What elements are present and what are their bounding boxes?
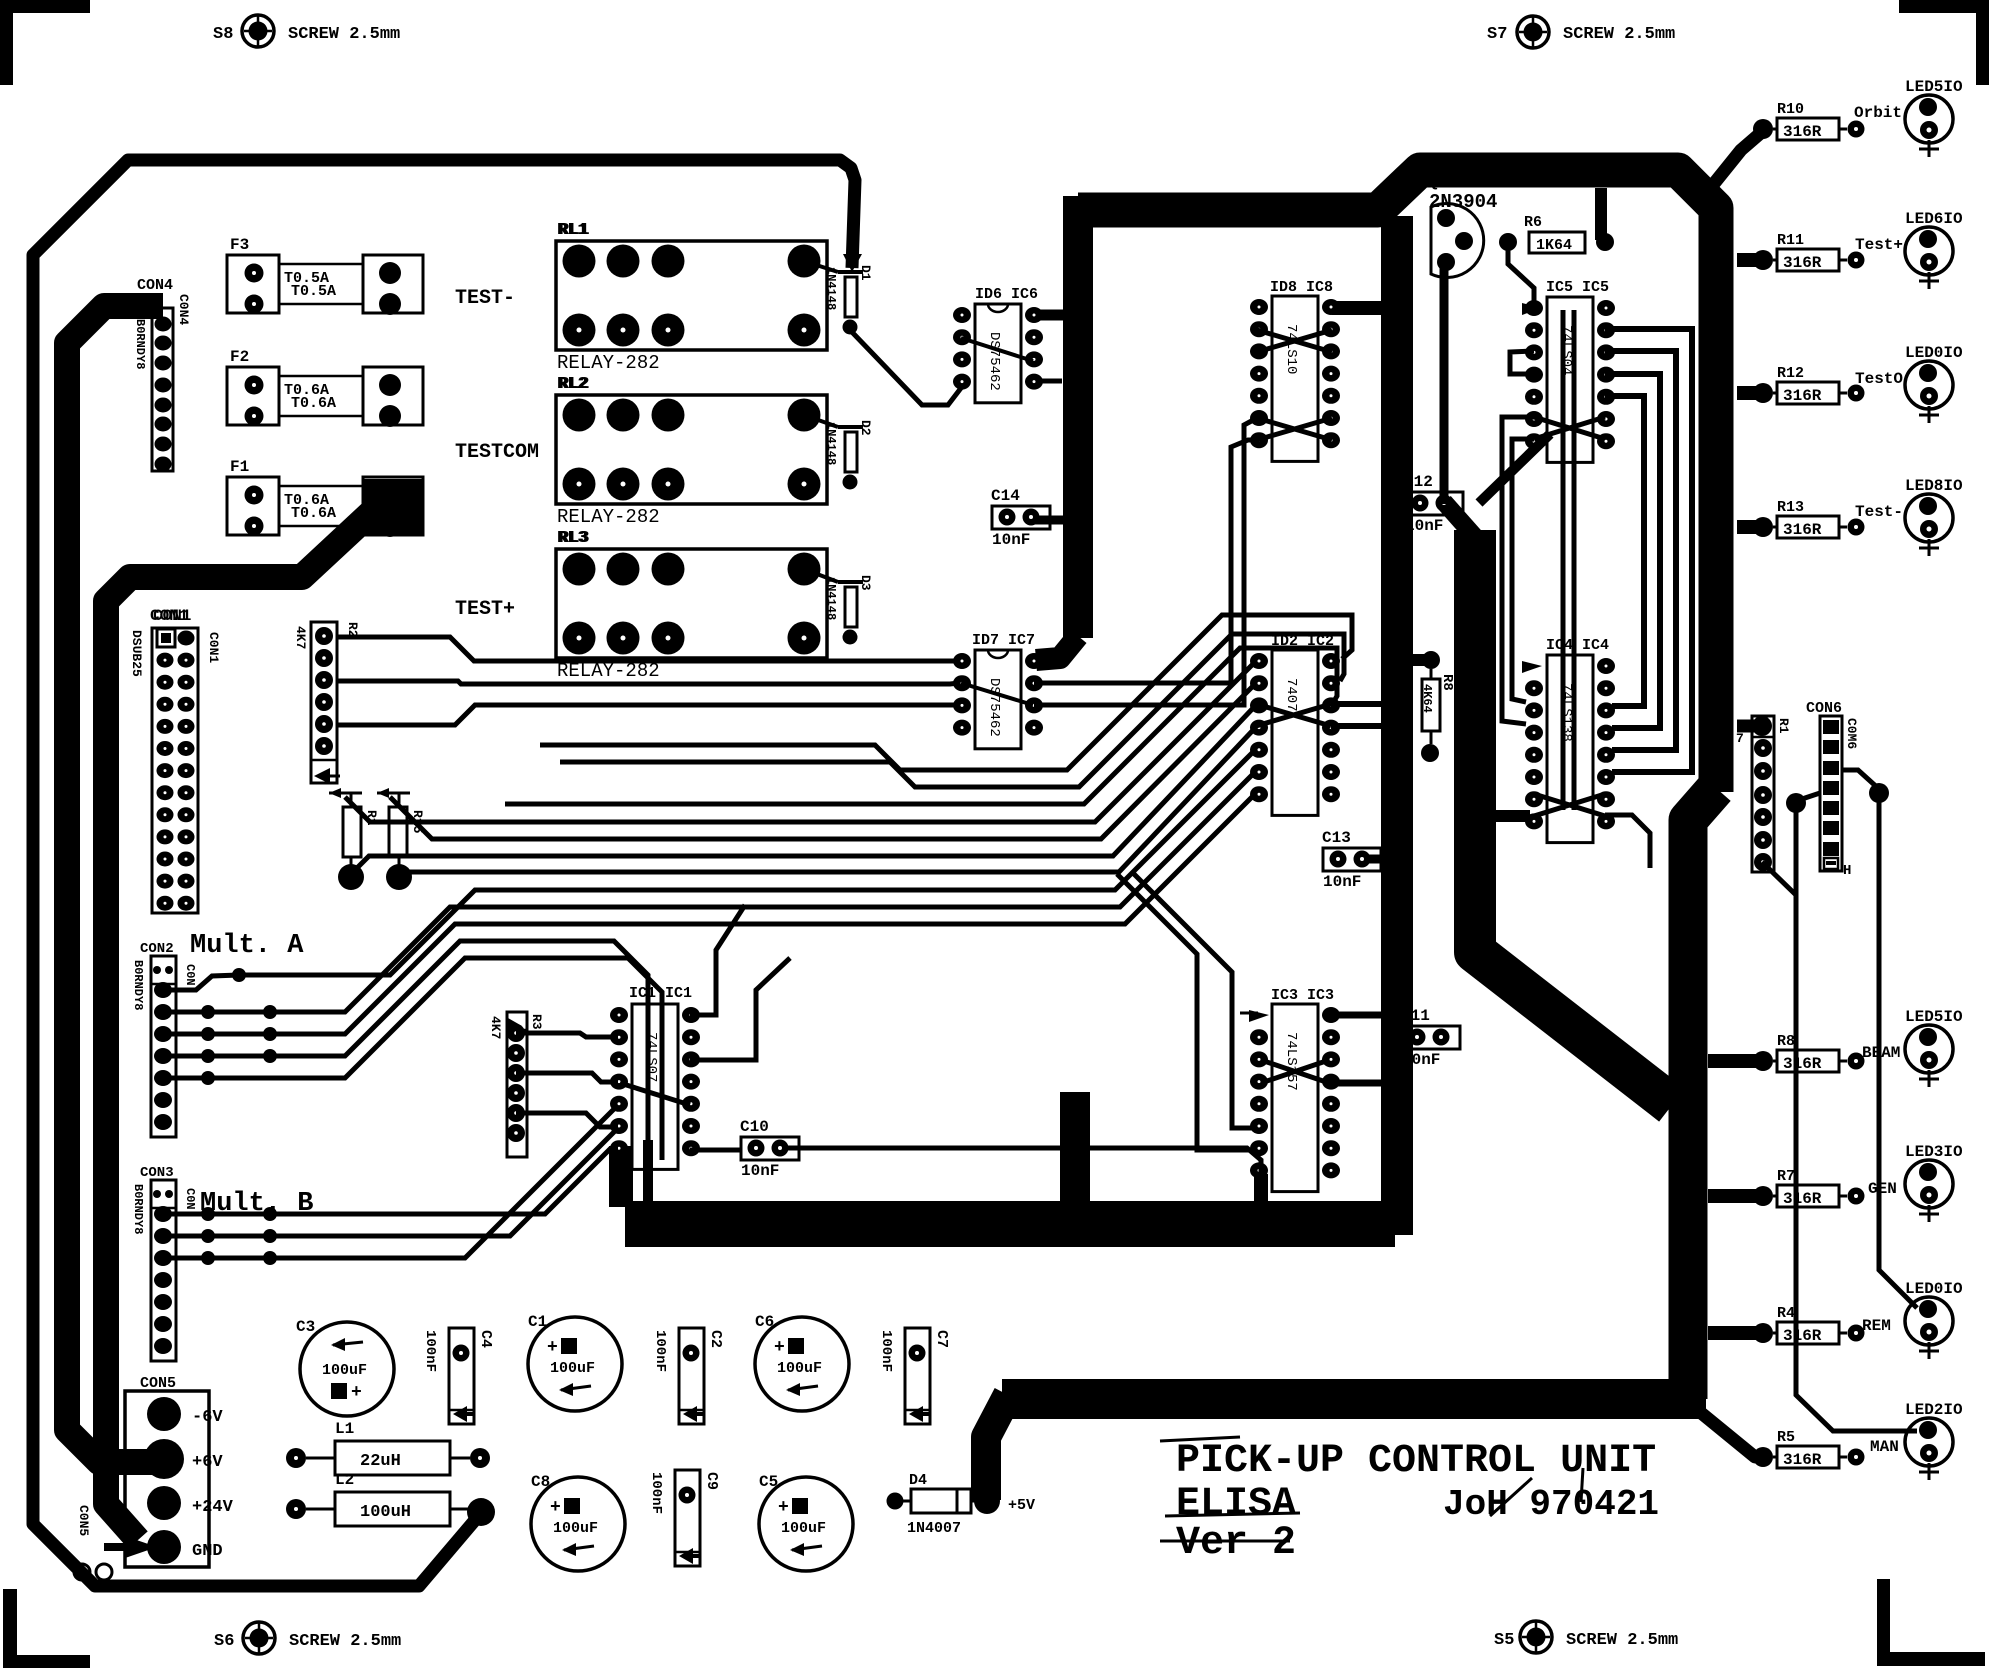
svg-text:C3: C3 (296, 1318, 315, 1336)
svg-text:TEST+: TEST+ (455, 598, 515, 621)
svg-text:PICK-UP CONTROL UNIT: PICK-UP CONTROL UNIT (1176, 1439, 1656, 1484)
svg-text:LED6IO: LED6IO (1905, 210, 1963, 228)
svg-text:ID8 IC8: ID8 IC8 (1270, 279, 1333, 296)
svg-text:100nF: 100nF (878, 1330, 894, 1372)
svg-text:RELAY-282: RELAY-282 (557, 352, 660, 374)
svg-text:R6: R6 (1524, 214, 1542, 231)
svg-text:R12: R12 (1777, 365, 1804, 382)
svg-text:H: H (1843, 863, 1851, 879)
svg-text:C0N: C0N (183, 1188, 197, 1210)
svg-text:R13: R13 (1777, 499, 1804, 516)
svg-text:C10: C10 (740, 1118, 769, 1136)
svg-text:100uF: 100uF (322, 1362, 367, 1379)
svg-text:SCREW 2.5mm: SCREW 2.5mm (1566, 1631, 1678, 1650)
svg-text:100nF: 100nF (422, 1330, 438, 1372)
svg-text:316R: 316R (1783, 254, 1822, 272)
svg-text:Q1: Q1 (1428, 173, 1447, 191)
svg-text:C6: C6 (755, 1313, 774, 1331)
svg-text:F1: F1 (230, 458, 249, 476)
svg-text:C11: C11 (1401, 1007, 1430, 1025)
svg-text:T0.6A: T0.6A (291, 505, 336, 522)
svg-text:REM: REM (1862, 1317, 1891, 1335)
svg-text:+: + (778, 1498, 789, 1518)
svg-text:IC4 IC4: IC4 IC4 (1546, 637, 1609, 654)
svg-text:LED5IO: LED5IO (1905, 78, 1963, 96)
svg-text:R8: R8 (1777, 1033, 1795, 1050)
svg-text:CON6: CON6 (1806, 700, 1842, 717)
svg-text:LED2IO: LED2IO (1905, 1401, 1963, 1419)
svg-text:Test+: Test+ (1855, 236, 1903, 254)
svg-text:2N3904: 2N3904 (1429, 191, 1497, 213)
svg-text:TestO: TestO (1855, 370, 1903, 388)
svg-text:4K64: 4K64 (1420, 684, 1434, 713)
svg-text:1K64: 1K64 (1536, 237, 1572, 254)
svg-text:B0RNDY8: B0RNDY8 (131, 1184, 145, 1234)
svg-text:R3: R3 (529, 1014, 544, 1030)
svg-text:74LS07: 74LS07 (643, 1032, 659, 1082)
svg-text:SCREW 2.5mm: SCREW 2.5mm (288, 25, 400, 44)
svg-text:D4: D4 (909, 1472, 927, 1489)
svg-text:LED3IO: LED3IO (1905, 1143, 1963, 1161)
svg-text:IC3 IC3: IC3 IC3 (1271, 987, 1334, 1004)
svg-text:C8: C8 (531, 1473, 550, 1491)
svg-text:T0.6A: T0.6A (291, 395, 336, 412)
svg-text:R5: R5 (1777, 1429, 1795, 1446)
svg-text:JoH 970421: JoH 970421 (1443, 1484, 1659, 1525)
svg-text:4K7: 4K7 (293, 626, 308, 649)
svg-text:TEST-: TEST- (455, 287, 515, 310)
svg-text:LED0IO: LED0IO (1905, 1280, 1963, 1298)
svg-text:316R: 316R (1783, 123, 1822, 141)
svg-text:F2: F2 (230, 348, 249, 366)
svg-text:SCREW 2.5mm: SCREW 2.5mm (289, 1632, 401, 1651)
svg-text:D3: D3 (858, 575, 873, 591)
svg-text:C2: C2 (707, 1330, 724, 1348)
svg-text:C0N4: C0N4 (176, 294, 191, 325)
svg-text:74LS10: 74LS10 (1283, 324, 1299, 374)
svg-text:316R: 316R (1783, 1055, 1822, 1073)
svg-text:Orbit: Orbit (1854, 104, 1902, 122)
svg-text:7407: 7407 (1283, 678, 1299, 712)
svg-text:DS75462: DS75462 (986, 678, 1002, 737)
svg-text:C14: C14 (991, 487, 1020, 505)
svg-text:R7: R7 (1777, 1168, 1795, 1185)
svg-text:ID6 IC6: ID6 IC6 (975, 286, 1038, 303)
svg-text:T0.5A: T0.5A (291, 283, 336, 300)
svg-text:10nF: 10nF (1402, 1051, 1440, 1069)
svg-text:100uF: 100uF (550, 1360, 595, 1377)
svg-text:C5: C5 (759, 1473, 778, 1491)
svg-text:TESTCOM: TESTCOM (455, 441, 539, 464)
svg-text:L2: L2 (335, 1471, 354, 1489)
svg-text:R1: R1 (1776, 718, 1791, 734)
svg-text:C9: C9 (703, 1472, 720, 1490)
svg-text:+: + (550, 1498, 561, 1518)
svg-text:100nF: 100nF (652, 1330, 668, 1372)
svg-text:C7: C7 (933, 1330, 950, 1348)
svg-text:CON5: CON5 (140, 1375, 176, 1392)
svg-text:D2: D2 (858, 420, 873, 436)
svg-text:-6V: -6V (192, 1408, 223, 1427)
svg-text:SCREW 2.5mm: SCREW 2.5mm (1563, 25, 1675, 44)
svg-text:R4: R4 (1777, 1305, 1795, 1322)
svg-text:CON2: CON2 (140, 941, 174, 957)
svg-text:C0N: C0N (183, 964, 197, 986)
svg-text:DSUB25: DSUB25 (129, 630, 144, 677)
svg-text:CON4: CON4 (137, 277, 173, 294)
svg-text:B0RNDY8: B0RNDY8 (133, 319, 147, 369)
svg-text:S7: S7 (1487, 25, 1507, 44)
svg-text:LED8IO: LED8IO (1905, 477, 1963, 495)
svg-text:1N4007: 1N4007 (907, 1520, 961, 1537)
svg-text:CON3: CON3 (140, 1165, 174, 1181)
svg-text:+: + (351, 1383, 362, 1403)
svg-text:R10: R10 (1777, 101, 1804, 118)
svg-text:RELAY-282: RELAY-282 (557, 506, 660, 528)
svg-text:MAN: MAN (1870, 1438, 1899, 1456)
svg-text:C0N5: C0N5 (76, 1505, 91, 1536)
svg-text:Ver 2: Ver 2 (1176, 1521, 1296, 1566)
svg-text:F3: F3 (230, 236, 249, 254)
svg-text:LED0IO: LED0IO (1905, 344, 1963, 362)
svg-text:C12: C12 (1404, 473, 1433, 491)
svg-text:R11: R11 (1777, 232, 1804, 249)
svg-text:GEN: GEN (1868, 1180, 1897, 1198)
svg-text:316R: 316R (1783, 521, 1822, 539)
svg-text:C1: C1 (528, 1313, 547, 1331)
svg-text:+24V: +24V (192, 1498, 234, 1517)
svg-text:7: 7 (1736, 731, 1744, 746)
svg-text:RL1: RL1 (559, 221, 590, 240)
svg-text:10nF: 10nF (992, 531, 1030, 549)
svg-text:Test-: Test- (1855, 503, 1903, 521)
svg-text:IC5 IC5: IC5 IC5 (1546, 279, 1609, 296)
svg-text:L1: L1 (335, 1420, 354, 1438)
svg-text:S8: S8 (213, 25, 233, 44)
svg-text:GND: GND (192, 1542, 223, 1561)
svg-text:DS75462: DS75462 (986, 332, 1002, 391)
svg-text:1N4148: 1N4148 (824, 422, 838, 465)
svg-text:1N4148: 1N4148 (824, 267, 838, 310)
svg-text:100uF: 100uF (781, 1520, 826, 1537)
svg-text:RL2: RL2 (559, 375, 590, 394)
svg-text:1N4148: 1N4148 (824, 577, 838, 620)
svg-text:10nF: 10nF (1323, 873, 1361, 891)
svg-text:4K7: 4K7 (488, 1016, 503, 1039)
svg-text:R8: R8 (1439, 674, 1455, 691)
svg-text:100uF: 100uF (553, 1520, 598, 1537)
svg-text:316R: 316R (1783, 1190, 1822, 1208)
svg-text:22uH: 22uH (360, 1452, 401, 1471)
svg-text:10nF: 10nF (741, 1162, 779, 1180)
svg-text:S5: S5 (1494, 1631, 1514, 1650)
svg-text:10nF: 10nF (1405, 517, 1443, 535)
svg-text:Mult. A: Mult. A (190, 931, 304, 961)
svg-text:+5V: +5V (1008, 1497, 1035, 1514)
svg-text:74LS157: 74LS157 (1283, 1032, 1299, 1091)
svg-text:CON1: CON1 (153, 607, 191, 625)
svg-text:316R: 316R (1783, 1327, 1822, 1345)
svg-text:100nF: 100nF (648, 1472, 664, 1514)
svg-text:B0RNDY8: B0RNDY8 (131, 960, 145, 1010)
svg-text:100uF: 100uF (777, 1360, 822, 1377)
svg-text:LED5IO: LED5IO (1905, 1008, 1963, 1026)
svg-text:C0M6: C0M6 (1844, 718, 1859, 749)
svg-text:D1: D1 (858, 265, 873, 281)
svg-text:ID7 IC7: ID7 IC7 (972, 632, 1035, 649)
svg-text:C13: C13 (1322, 829, 1351, 847)
svg-text:S6: S6 (214, 1632, 234, 1651)
svg-text:100uH: 100uH (360, 1503, 411, 1522)
svg-text:316R: 316R (1783, 387, 1822, 405)
svg-text:+6V: +6V (192, 1453, 223, 1472)
svg-text:+: + (547, 1338, 558, 1358)
svg-text:C4: C4 (477, 1330, 494, 1348)
svg-text:316R: 316R (1783, 1451, 1822, 1469)
svg-text:+: + (774, 1338, 785, 1358)
svg-text:RL3: RL3 (559, 529, 590, 548)
svg-text:C0N1: C0N1 (206, 632, 221, 663)
